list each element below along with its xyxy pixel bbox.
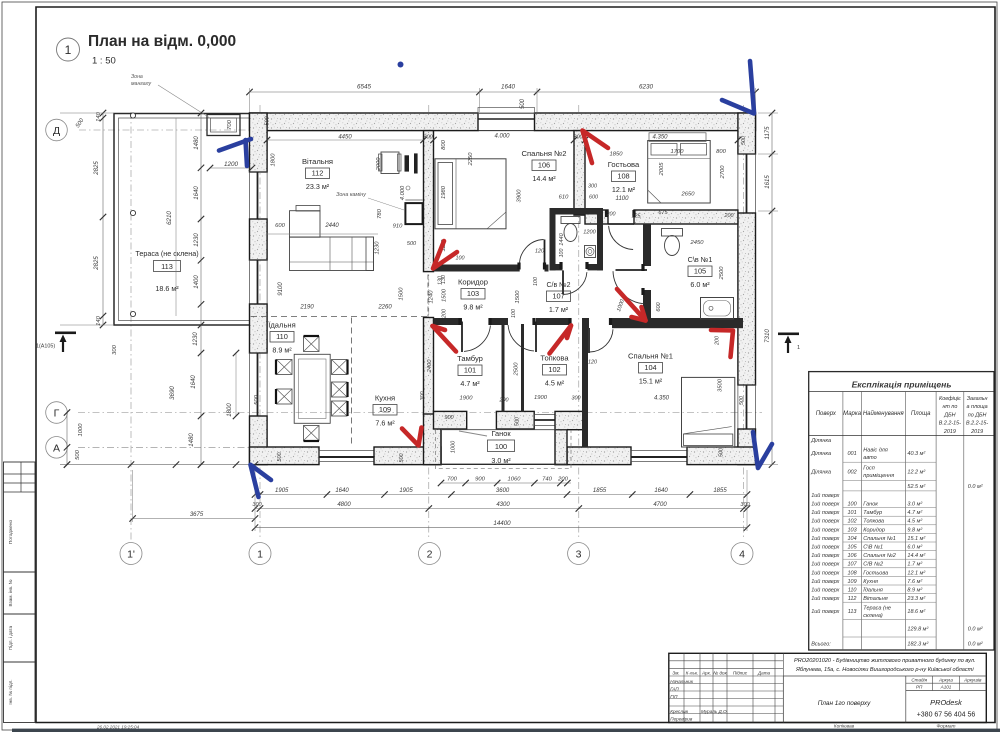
- svg-text:1ий поверх: 1ий поверх: [811, 552, 839, 559]
- wall exterior left pier4: [250, 416, 268, 465]
- svg-text:780: 780: [377, 208, 383, 218]
- svg-text:1640: 1640: [501, 84, 516, 91]
- svg-text:2190: 2190: [299, 305, 314, 311]
- explication heavy right border: [993, 372, 995, 650]
- wall corridor north seg2: [545, 265, 549, 272]
- svg-text:2019: 2019: [970, 429, 983, 435]
- svg-text:500: 500: [75, 449, 81, 459]
- window left wall w1: [250, 172, 268, 219]
- axis 1' vertical: [130, 112, 132, 540]
- svg-text:6545: 6545: [357, 84, 372, 91]
- wall exterior right pier2: [738, 213, 756, 385]
- svg-text:2400: 2400: [427, 359, 433, 374]
- svg-text:300: 300: [740, 502, 750, 508]
- svg-text:109: 109: [379, 405, 391, 414]
- wall south-mid pier1 tambour: [434, 411, 467, 429]
- svg-text:9100: 9100: [278, 282, 284, 296]
- bathtub sanvuzol1: [701, 298, 734, 320]
- svg-text:112: 112: [312, 169, 324, 178]
- axis A horizontal: [78, 446, 253, 448]
- svg-text:3600: 3600: [496, 488, 510, 494]
- svg-text:500: 500: [265, 117, 271, 126]
- svg-text:100: 100: [559, 249, 565, 258]
- svg-text:300: 300: [588, 184, 597, 190]
- svg-text:Всього:: Всього:: [811, 642, 831, 648]
- svg-text:Ганок: Ганок: [863, 502, 878, 508]
- svg-text:4: 4: [739, 549, 745, 561]
- svg-text:Госп: Госп: [863, 466, 875, 472]
- svg-text:Формат: Формат: [936, 724, 955, 730]
- svg-text:Д: Д: [53, 125, 60, 137]
- wall porch right connector: [555, 430, 567, 465]
- bbq zone rect: [207, 115, 240, 136]
- svg-text:Загальн: Загальн: [967, 396, 988, 402]
- svg-text:1ий поверх: 1ий поверх: [811, 569, 839, 576]
- svg-text:Інв. № підл.: Інв. № підл.: [8, 679, 13, 704]
- svg-text:4.350: 4.350: [654, 396, 670, 402]
- svg-text:002: 002: [848, 470, 857, 476]
- svg-text:52.5 м²: 52.5 м²: [907, 484, 925, 490]
- svg-text:Тамбур: Тамбур: [863, 510, 882, 516]
- dim chain left B windows: [200, 113, 202, 465]
- wall exterior top-left segment: [250, 113, 479, 131]
- grid bubble G: [46, 402, 68, 424]
- grid bubble 4: [731, 543, 753, 565]
- svg-text:500: 500: [277, 453, 283, 462]
- svg-text:1000: 1000: [451, 440, 457, 453]
- svg-text:500: 500: [741, 136, 747, 145]
- svg-text:110: 110: [276, 332, 288, 341]
- svg-text:1ий поверх: 1ий поверх: [811, 544, 839, 551]
- bottom scan bar: [12, 729, 1000, 732]
- svg-text:Поверх: Поверх: [816, 411, 837, 417]
- svg-text:110: 110: [848, 588, 858, 594]
- svg-text:500: 500: [399, 454, 405, 463]
- svg-text:200: 200: [715, 336, 721, 346]
- svg-text:300: 300: [252, 502, 262, 508]
- svg-text:500: 500: [719, 448, 725, 457]
- svg-text:1ий поверх: 1ий поверх: [811, 595, 839, 602]
- svg-text:Ділянка: Ділянка: [810, 438, 831, 444]
- svg-text:101: 101: [848, 510, 857, 516]
- svg-text:108: 108: [617, 172, 629, 181]
- svg-text:700: 700: [227, 119, 233, 129]
- svg-text:Арк.: Арк.: [701, 670, 711, 675]
- svg-text:PRO20201020 - Будівництво жи: PRO20201020 - Будівництво житлового прив…: [794, 658, 976, 664]
- svg-text:200: 200: [442, 309, 448, 319]
- svg-text:Спальня №1: Спальня №1: [628, 352, 673, 361]
- svg-text:А: А: [53, 442, 60, 454]
- door D7 corridor-alcove arc: [616, 269, 648, 271]
- bathroom2 wall left: [550, 208, 556, 270]
- svg-text:4.7 м²: 4.7 м²: [907, 510, 922, 516]
- svg-text:1ий поверх: 1ий поверх: [811, 492, 839, 499]
- svg-text:1640: 1640: [194, 186, 200, 200]
- svg-text:8.9 м²: 8.9 м²: [272, 346, 292, 355]
- wall south-mid pier3 corner: [555, 411, 583, 429]
- svg-text:0.0 м²: 0.0 м²: [968, 642, 983, 648]
- grid bubble 2: [419, 543, 441, 565]
- axis 1 vertical: [259, 105, 261, 540]
- svg-text:3500: 3500: [718, 378, 724, 392]
- wall south-mid pier2: [496, 411, 534, 429]
- grid bubble 3: [568, 543, 590, 565]
- svg-text:23.3 м²: 23.3 м²: [306, 182, 330, 191]
- bathroom2 wall bottom-right: [588, 264, 604, 270]
- svg-text:2500: 2500: [514, 362, 520, 377]
- red arrow bedroom2 top wall: [583, 131, 609, 164]
- wall exterior left pier1: [250, 113, 268, 172]
- svg-text:200: 200: [724, 213, 734, 219]
- svg-text:7.6 м²: 7.6 м²: [375, 419, 395, 428]
- grid bubble 1': [120, 543, 142, 565]
- armchair living room: [381, 152, 399, 174]
- svg-text:склена): склена): [863, 613, 883, 619]
- svg-text:Погоджено: Погоджено: [8, 520, 14, 545]
- svg-text:300: 300: [572, 396, 581, 402]
- title block frame: [669, 653, 987, 722]
- svg-text:Коридор: Коридор: [458, 278, 488, 287]
- zone dashed corridor west: [427, 275, 429, 318]
- dim chain bottom total 14400: [255, 527, 747, 529]
- toilet bathroom2: [561, 217, 580, 224]
- sofa L-shape living room: [290, 211, 321, 238]
- svg-text:1060: 1060: [508, 477, 522, 483]
- bed guest room: [648, 141, 711, 204]
- svg-text:Марка: Марка: [843, 411, 862, 417]
- svg-text:4.000: 4.000: [400, 185, 406, 200]
- svg-text:14.4 м²: 14.4 м²: [907, 553, 925, 559]
- wall sanvuzol1 west lower: [643, 290, 651, 319]
- axis 3 vertical: [578, 105, 580, 540]
- svg-text:106: 106: [538, 161, 550, 170]
- svg-text:1000: 1000: [78, 423, 84, 437]
- svg-text:Зона каміну: Зона каміну: [336, 192, 366, 198]
- svg-text:Їдальня: Їдальня: [268, 321, 295, 330]
- svg-text:Топкова: Топкова: [863, 519, 884, 525]
- door D1 tambour leaf+arc: [461, 322, 463, 353]
- svg-text:103: 103: [467, 289, 479, 298]
- svg-text:610: 610: [559, 195, 569, 201]
- svg-text:900: 900: [444, 415, 454, 421]
- terrace post 1: [130, 113, 135, 118]
- bottom outer line left extension: [60, 464, 255, 466]
- svg-text:С/В №2: С/В №2: [863, 562, 883, 568]
- wall exterior right pier1: [738, 113, 756, 154]
- red arrow kitchen bottom-right: [402, 428, 422, 446]
- svg-text:3690: 3690: [169, 386, 176, 400]
- svg-text:Зона: Зона: [131, 74, 143, 80]
- svg-text:1800: 1800: [271, 153, 277, 167]
- svg-text:4.7 м²: 4.7 м²: [460, 379, 480, 388]
- svg-text:1ий поверх: 1ий поверх: [811, 518, 839, 525]
- bathroom2 wall top: [550, 208, 604, 215]
- svg-text:4.5 м²: 4.5 м²: [907, 519, 922, 525]
- dim chain bottom porch row: [441, 482, 571, 484]
- svg-text:2005: 2005: [659, 162, 665, 177]
- svg-text:Аркуш: Аркуш: [938, 677, 953, 682]
- wall corridor north seg1: [434, 265, 520, 272]
- svg-text:2825: 2825: [94, 256, 100, 271]
- door D2 topkova leaf+arc: [535, 322, 537, 353]
- svg-text:Кухня: Кухня: [375, 394, 395, 403]
- svg-text:Тераса (не: Тераса (не: [863, 606, 891, 612]
- svg-text:1980: 1980: [441, 185, 447, 199]
- svg-text:4.5 м²: 4.5 м²: [545, 379, 565, 388]
- title block left grid: [683, 653, 685, 722]
- blue arrow top-right: [750, 61, 754, 112]
- terrace post 3: [130, 311, 135, 316]
- wall exterior bottom seg2: [374, 447, 441, 465]
- svg-text:Коефіціє: Коефіціє: [939, 396, 961, 402]
- window top wall Spalnya2: [478, 130, 535, 132]
- svg-text:12.1 м²: 12.1 м²: [612, 185, 636, 194]
- svg-text:Навіс для: Навіс для: [863, 447, 888, 453]
- svg-text:Стадія: Стадія: [911, 677, 927, 682]
- wall 3 chase bedroom2-guest: [574, 131, 585, 216]
- svg-text:приміщення: приміщення: [863, 473, 894, 479]
- svg-text:6210: 6210: [166, 211, 173, 225]
- svg-text:Спальня №2: Спальня №2: [863, 553, 896, 559]
- svg-text:Гостьова: Гостьова: [608, 160, 640, 169]
- bathroom2 wall right: [597, 208, 603, 270]
- dining chairs: [304, 337, 320, 352]
- section marker 1(A105) left: [55, 332, 76, 335]
- tv console living room: [405, 155, 410, 171]
- svg-text:Спальня №1: Спальня №1: [863, 536, 896, 542]
- bed bedroom1: [682, 377, 735, 447]
- svg-text:740: 740: [542, 477, 552, 483]
- svg-text:130: 130: [438, 276, 444, 285]
- svg-text:ГІП: ГІП: [670, 694, 678, 699]
- svg-text:125: 125: [632, 214, 642, 220]
- svg-text:№ док: № док: [713, 670, 727, 675]
- porch leader line: [459, 431, 487, 436]
- svg-text:Яблунева, 15а, с. Новосілки Ви: Яблунева, 15а, с. Новосілки Вишгородсько…: [795, 667, 974, 673]
- svg-text:План на відм. 0,000: План на відм. 0,000: [88, 33, 236, 50]
- dim 3675 terrace bottom: [133, 518, 255, 520]
- window right wall w1: [738, 154, 756, 213]
- svg-text:РП: РП: [916, 685, 923, 690]
- door jamb marks: [458, 318, 461, 325]
- wall chunk south-west of porch: [424, 414, 442, 465]
- porch dashed outline: [436, 430, 572, 469]
- svg-text:Зм.: Зм.: [672, 670, 679, 675]
- svg-text:Експлікація приміщень: Експлікація приміщень: [852, 380, 952, 390]
- svg-text:112: 112: [848, 596, 857, 602]
- axis G horizontal: [78, 412, 762, 414]
- dim chain bottom segments row: [255, 494, 747, 496]
- svg-text:7310: 7310: [764, 329, 771, 343]
- svg-text:9.8 м²: 9.8 м²: [463, 303, 483, 312]
- svg-text:Креслив: Креслив: [670, 709, 688, 714]
- svg-text:1905: 1905: [275, 488, 289, 494]
- svg-text:Г: Г: [54, 408, 60, 420]
- window bottom wall kitchen: [319, 451, 374, 462]
- svg-text:500: 500: [739, 396, 745, 405]
- grid bubble D: [46, 119, 68, 141]
- door D5 bathroom2 leaf+arc: [562, 270, 564, 294]
- svg-text:Топкова: Топкова: [540, 354, 569, 363]
- dim chain right 1175/1615/7310: [771, 113, 773, 465]
- door D3 bedroom1 leaf+arc: [588, 328, 590, 353]
- svg-text:Тамбур: Тамбур: [457, 354, 483, 363]
- svg-text:А101: А101: [940, 685, 952, 690]
- svg-text:PROdesk: PROdesk: [930, 698, 962, 707]
- svg-text:200: 200: [557, 477, 568, 483]
- svg-text:Перевірив: Перевірив: [670, 717, 693, 722]
- wall exterior top-right segment: [535, 113, 756, 131]
- svg-text:106: 106: [848, 553, 858, 559]
- svg-text:102: 102: [848, 519, 857, 525]
- svg-text:40.3 м²: 40.3 м²: [907, 451, 925, 457]
- svg-text:2019: 2019: [943, 429, 956, 435]
- svg-text:0.0 м²: 0.0 м²: [968, 627, 983, 633]
- svg-text:200: 200: [499, 398, 509, 404]
- svg-text:100: 100: [456, 256, 465, 262]
- svg-text:2825: 2825: [94, 161, 100, 176]
- dining table: [294, 354, 330, 423]
- wall exterior left pier3: [250, 304, 268, 353]
- svg-text:План 1го поверху: План 1го поверху: [818, 700, 871, 707]
- window bottom wall Spalnya1: [631, 451, 687, 462]
- svg-text:600: 600: [275, 223, 285, 229]
- svg-text:200: 200: [606, 212, 616, 218]
- dim chain bottom axes row: [255, 508, 747, 510]
- svg-text:2260: 2260: [377, 305, 392, 311]
- svg-text:300: 300: [420, 392, 426, 401]
- svg-text:2: 2: [427, 549, 433, 561]
- svg-text:3: 3: [576, 549, 582, 561]
- svg-text:182.3 м²: 182.3 м²: [907, 642, 928, 648]
- svg-text:18.6 м²: 18.6 м²: [155, 284, 179, 293]
- wall guest south seg2: [634, 210, 738, 224]
- svg-text:Ділянка: Ділянка: [810, 470, 831, 476]
- svg-text:700: 700: [447, 477, 457, 483]
- svg-text:14400: 14400: [493, 520, 511, 527]
- toilet sanvuzol1: [662, 229, 683, 237]
- svg-text:4.000: 4.000: [494, 134, 510, 140]
- door D6 guestroom leaf+arc: [609, 223, 635, 225]
- wall exterior left pier2: [250, 219, 268, 260]
- svg-text:4700: 4700: [653, 502, 667, 508]
- svg-text:Аркушів: Аркушів: [963, 677, 982, 682]
- svg-text:1230: 1230: [194, 233, 200, 247]
- svg-text:Копіював: Копіював: [834, 724, 855, 730]
- svg-text:675: 675: [658, 210, 668, 216]
- svg-text:1ий поверх: 1ий поверх: [811, 535, 839, 542]
- svg-text:1900: 1900: [460, 396, 474, 402]
- stamp strip left: [4, 462, 36, 572]
- explication header row: [842, 392, 844, 651]
- svg-text:С\В №1: С\В №1: [863, 545, 883, 551]
- explication table: [809, 372, 995, 650]
- title block drawing name cell: [782, 676, 784, 723]
- svg-text:1900: 1900: [534, 395, 548, 401]
- svg-text:1ий поверх: 1ий поверх: [811, 561, 839, 568]
- svg-text:104: 104: [848, 536, 857, 542]
- window left wall w2: [250, 260, 268, 304]
- wall sanvuzol1 west upper: [643, 224, 651, 266]
- svg-text:Їдальня: Їдальня: [863, 587, 883, 594]
- svg-text:800: 800: [441, 139, 447, 149]
- shaft wall tambour-topkova left: [502, 324, 505, 412]
- svg-text:1640: 1640: [191, 375, 197, 389]
- svg-text:1175: 1175: [765, 126, 771, 140]
- svg-text:12.1 м²: 12.1 м²: [907, 570, 925, 576]
- svg-text:а площа: а площа: [967, 404, 988, 410]
- svg-text:Спальня №2: Спальня №2: [522, 149, 567, 158]
- red arrow topkova top-right: [550, 326, 572, 354]
- svg-text:300: 300: [112, 344, 118, 354]
- svg-text:Мураль Д.О.: Мураль Д.О.: [701, 709, 728, 714]
- window sill rect guest north: [649, 133, 706, 142]
- svg-text:Тераса (не склена): Тераса (не склена): [135, 249, 198, 258]
- section marker dot top: [398, 62, 404, 68]
- grid bubble A: [46, 437, 68, 459]
- svg-text:Коридор: Коридор: [863, 527, 885, 533]
- svg-text:500: 500: [254, 394, 260, 404]
- svg-text:120: 120: [535, 249, 544, 255]
- svg-text:1500: 1500: [399, 287, 405, 301]
- wall exterior bottom seg3: [567, 447, 631, 465]
- svg-text:3.0 м²: 3.0 м²: [907, 502, 922, 508]
- svg-text:Найменування: Найменування: [863, 410, 905, 417]
- fireplace: [405, 203, 422, 224]
- grid bubble 1: [249, 543, 271, 565]
- svg-text:120: 120: [588, 360, 597, 366]
- svg-text:1 : 50: 1 : 50: [92, 56, 116, 67]
- wall bedroom1 north seg2: [612, 318, 743, 328]
- wall corridor south seg2: [490, 318, 508, 325]
- svg-text:Вітальня: Вітальня: [302, 157, 333, 166]
- svg-text:2700: 2700: [720, 165, 726, 180]
- porch floor edge: [441, 430, 567, 465]
- svg-text:15.1 м²: 15.1 м²: [639, 377, 663, 386]
- svg-text:14.4 м²: 14.4 м²: [532, 174, 556, 183]
- svg-text:1640: 1640: [654, 488, 668, 494]
- svg-text:3.0 м²: 3.0 м²: [491, 456, 511, 465]
- svg-text:100: 100: [848, 502, 858, 508]
- svg-text:1.7 м²: 1.7 м²: [907, 562, 922, 568]
- svg-text:105: 105: [694, 267, 706, 276]
- svg-text:по ДБН: по ДБН: [968, 412, 987, 418]
- svg-text:1: 1: [65, 43, 72, 57]
- svg-text:Підпис: Підпис: [733, 670, 748, 675]
- svg-text:1855: 1855: [593, 488, 607, 494]
- svg-text:1500: 1500: [515, 290, 521, 304]
- svg-text:1480: 1480: [189, 433, 195, 447]
- svg-text:В.2.2-15-: В.2.2-15-: [966, 421, 988, 427]
- svg-text:авто: авто: [863, 455, 876, 461]
- svg-text:4450: 4450: [338, 135, 352, 141]
- svg-text:15.1 м²: 15.1 м²: [907, 536, 925, 542]
- svg-text:3675: 3675: [190, 512, 204, 518]
- svg-text:104: 104: [644, 363, 656, 372]
- svg-text:4300: 4300: [496, 502, 510, 508]
- svg-text:2000: 2000: [376, 157, 382, 172]
- red arrow living-corridor corner: [433, 241, 457, 269]
- svg-text:113: 113: [848, 609, 858, 615]
- svg-text:1ий поверх: 1ий поверх: [811, 501, 839, 508]
- terrace post 2: [130, 210, 135, 215]
- axis 4 vertical: [743, 105, 745, 540]
- svg-text:6.0 м²: 6.0 м²: [907, 545, 922, 551]
- svg-text:1700: 1700: [671, 149, 685, 155]
- red arrow tambour top-left: [433, 326, 457, 352]
- wall bedroom1 west: [582, 323, 588, 448]
- red arrow corridor-alcove: [617, 289, 646, 321]
